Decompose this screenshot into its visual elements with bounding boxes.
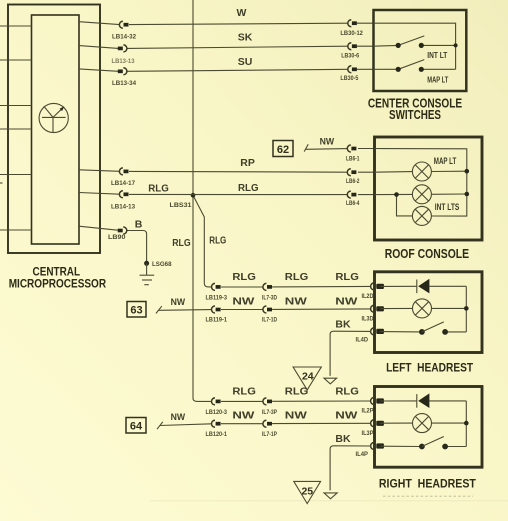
svg-text:RLG: RLG: [238, 182, 259, 194]
svg-text:LEFT HEADREST: LEFT HEADREST: [386, 361, 474, 375]
svg-text:64: 64: [130, 421, 143, 433]
svg-text:LSG68: LSG68: [152, 261, 172, 268]
svg-text:SK: SK: [238, 32, 253, 44]
svg-text:IL7-1P: IL7-1P: [262, 431, 277, 438]
svg-text:IL7-3P: IL7-3P: [262, 409, 277, 416]
svg-text:24: 24: [302, 371, 314, 383]
svg-text:ROOF CONSOLE: ROOF CONSOLE: [385, 246, 470, 261]
svg-text:RLG: RLG: [148, 183, 169, 195]
svg-text:B: B: [135, 219, 143, 231]
svg-text:NW: NW: [335, 295, 357, 307]
svg-text:RLG: RLG: [209, 236, 226, 247]
svg-text:W: W: [237, 7, 247, 19]
svg-text:LB6-1: LB6-1: [346, 156, 360, 163]
svg-text:IL7-3D: IL7-3D: [262, 295, 277, 302]
svg-text:INT LTS: INT LTS: [435, 202, 460, 212]
svg-text:NW: NW: [285, 295, 307, 307]
svg-text:IL2P: IL2P: [362, 408, 375, 415]
svg-text:LB30-5: LB30-5: [340, 75, 358, 82]
svg-text:NW: NW: [171, 412, 186, 423]
svg-text:IL4D: IL4D: [356, 336, 369, 343]
svg-text:LB120-3: LB120-3: [206, 409, 228, 416]
svg-text:IL4P: IL4P: [356, 451, 369, 458]
svg-text:63: 63: [130, 305, 142, 317]
svg-text:NW: NW: [232, 295, 254, 307]
svg-text:RLG: RLG: [232, 271, 256, 283]
svg-text:BK: BK: [335, 433, 351, 445]
svg-text:RLG: RLG: [232, 386, 256, 398]
svg-text:LB119-3: LB119-3: [206, 295, 228, 302]
svg-text:LB14-17: LB14-17: [111, 180, 135, 187]
svg-text:CENTRAL: CENTRAL: [33, 267, 81, 279]
svg-text:NW: NW: [285, 410, 307, 422]
svg-text:RLG: RLG: [172, 238, 191, 249]
svg-text:MICROPROCESSOR: MICROPROCESSOR: [9, 278, 107, 290]
svg-text:IL3D: IL3D: [362, 315, 374, 322]
svg-text:MAP LT: MAP LT: [434, 156, 457, 166]
svg-text:INT LT: INT LT: [427, 50, 448, 60]
svg-text:RLG: RLG: [285, 386, 309, 398]
svg-text:25: 25: [301, 486, 313, 498]
svg-text:LB90: LB90: [108, 234, 126, 241]
svg-text:MAP LT: MAP LT: [427, 74, 448, 84]
svg-text:LB120-1: LB120-1: [206, 431, 228, 438]
svg-text:NW: NW: [171, 297, 186, 308]
svg-text:RLG: RLG: [285, 271, 309, 283]
svg-text:RP: RP: [240, 157, 255, 169]
svg-text:LB30-6: LB30-6: [341, 53, 359, 60]
svg-text:LB13-34: LB13-34: [112, 80, 136, 87]
svg-text:RLG: RLG: [335, 386, 359, 398]
svg-text:SWITCHES: SWITCHES: [389, 107, 441, 122]
svg-text:LB6-4: LB6-4: [346, 200, 360, 207]
svg-text:NW: NW: [320, 137, 335, 148]
svg-text:LB30-12: LB30-12: [340, 30, 363, 37]
svg-text:62: 62: [277, 144, 289, 156]
svg-text:LB14-13: LB14-13: [111, 204, 135, 211]
svg-text:NW: NW: [232, 410, 254, 422]
svg-text:LBS31: LBS31: [170, 202, 192, 209]
svg-text:BK: BK: [335, 319, 351, 331]
svg-text:IL7-1D: IL7-1D: [262, 317, 277, 324]
svg-text:RIGHT HEADREST: RIGHT HEADREST: [379, 477, 477, 491]
svg-text:LB6-2: LB6-2: [346, 178, 360, 185]
svg-text:LB119-1: LB119-1: [206, 317, 228, 324]
svg-text:NW: NW: [335, 410, 357, 422]
svg-text:LB13-13: LB13-13: [112, 58, 135, 65]
svg-text:IL3P: IL3P: [362, 430, 375, 437]
svg-text:RLG: RLG: [335, 271, 359, 283]
svg-text:SU: SU: [238, 56, 253, 68]
svg-text:LB14-32: LB14-32: [112, 34, 136, 41]
svg-text:IL2D: IL2D: [362, 293, 374, 300]
